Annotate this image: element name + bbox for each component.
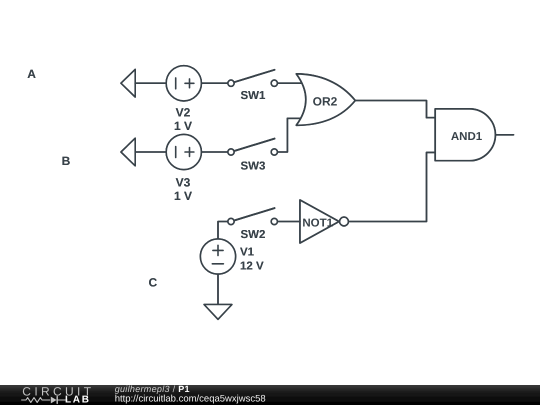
label OR2 xyxy=(313,94,338,108)
voltage source V2 xyxy=(166,66,201,101)
wire V3 to SW3 xyxy=(201,151,227,153)
label NOT1 xyxy=(302,217,333,229)
svg-text:B: B xyxy=(62,154,71,168)
wire SW1 to OR2 xyxy=(277,82,302,84)
switch SW2 xyxy=(228,208,278,224)
label SW1 xyxy=(240,90,266,102)
wire SW3 to OR2 lower input xyxy=(277,118,301,152)
switch SW1 xyxy=(228,70,278,86)
node A xyxy=(27,67,36,81)
svg-text:A: A xyxy=(27,67,36,81)
svg-text:1 V: 1 V xyxy=(174,119,192,133)
wire flag A to V2 xyxy=(135,82,166,84)
label V3 xyxy=(176,175,191,189)
wire flag B to V3 xyxy=(135,151,166,153)
ground xyxy=(204,305,232,320)
svg-text:1 V: 1 V xyxy=(174,189,192,203)
svg-text:SW2: SW2 xyxy=(240,229,265,241)
svg-text:SW3: SW3 xyxy=(240,160,265,172)
svg-text:NOT1: NOT1 xyxy=(302,217,333,229)
svg-text:AND1: AND1 xyxy=(451,131,483,143)
CircuitLab logo xyxy=(22,384,95,405)
label SW2 xyxy=(240,229,265,241)
svg-text:12 V: 12 V xyxy=(240,260,264,272)
footer bar xyxy=(0,385,540,405)
or-gate OR2 xyxy=(296,74,355,125)
svg-text:C: C xyxy=(148,275,157,289)
svg-text:http://circuitlab.com/ceqa5wxj: http://circuitlab.com/ceqa5wxjwsc58 xyxy=(115,393,266,404)
label V1 xyxy=(240,246,255,258)
voltage source V3 xyxy=(166,134,201,169)
label V3 value 1 V xyxy=(174,189,192,203)
svg-text:SW1: SW1 xyxy=(240,90,266,102)
svg-text:V1: V1 xyxy=(240,246,255,258)
node C xyxy=(148,275,157,289)
wire V2 to SW1 xyxy=(201,82,227,84)
flag B xyxy=(121,138,135,166)
wire AND1 output xyxy=(495,134,513,136)
svg-text:V3: V3 xyxy=(176,175,191,189)
node B xyxy=(62,154,71,168)
wire OR2 to AND1 upper input xyxy=(355,101,435,118)
wire NOT1 output to AND1 lower input xyxy=(349,152,435,221)
flag A xyxy=(121,69,135,97)
svg-text:V2: V2 xyxy=(176,105,191,119)
not-gate NOT1 xyxy=(300,200,348,243)
label V1 value 12 V xyxy=(240,260,264,272)
and-gate AND1 xyxy=(435,109,495,161)
wire SW2 to V1 xyxy=(218,222,228,240)
footer url xyxy=(115,393,266,404)
wire SW2 to NOT1 xyxy=(277,221,300,223)
svg-text:LAB: LAB xyxy=(65,395,91,405)
wire V1 to ground xyxy=(217,274,219,304)
footer schematic title xyxy=(115,384,190,394)
label AND1 xyxy=(451,131,483,143)
label V2 xyxy=(176,105,191,119)
switch SW3 xyxy=(228,139,278,155)
label V2 value 1 V xyxy=(174,119,192,133)
svg-text:OR2: OR2 xyxy=(313,94,338,108)
label SW3 xyxy=(240,160,265,172)
voltage source V1 xyxy=(200,239,235,274)
